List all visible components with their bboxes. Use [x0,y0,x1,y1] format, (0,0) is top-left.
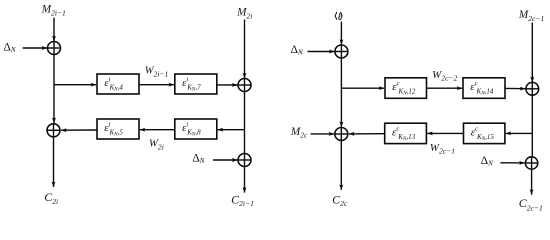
wire X8 to C_{2c-1} [531,169,533,195]
block E13 [385,123,427,143]
wire X6 to C_{2c} [340,141,342,191]
wire E4 to E7 [139,84,174,86]
svg-text:M2c: M2c [290,126,308,140]
block E5 [97,119,139,139]
wire E5 to xor X2 [61,129,97,131]
svg-text:C2i−1: C2i−1 [231,192,254,208]
svg-text:εcKN,15: εcKN,15 [471,125,495,142]
wire X4 to C_{2i-1} [244,167,246,193]
wire M_{2c-1} input [531,23,533,83]
svg-text:ΔN: ΔN [291,43,304,56]
block E4 [97,74,139,94]
svg-text:W2c−1: W2c−1 [430,142,455,156]
wire E8 to E5 [140,129,175,131]
wire branch to block E12 [341,87,384,89]
block E14 [463,78,505,99]
svg-text:εcKN,13: εcKN,13 [392,125,416,142]
wire branch to block E8 [218,129,245,131]
svg-text:W2i: W2i [149,138,164,152]
block E7 [175,74,217,94]
xor X8 [525,157,537,169]
xor X1 [48,42,61,55]
label rangle bracket right [340,12,342,20]
svg-text:M2c−1: M2c−1 [518,9,544,23]
wire M_{2i-1} input [53,18,55,42]
wire E15 to E13 [427,132,463,134]
svg-text:C2c: C2c [332,192,348,208]
svg-text:εcKN,14: εcKN,14 [470,80,494,97]
wire E14 to xor X7 [505,87,525,89]
svg-text:εiKN,7: εiKN,7 [182,76,201,93]
svg-text:εiKN,4: εiKN,4 [104,76,123,93]
wire Delta_N to xor X4 [213,159,237,161]
xor X6 [335,128,348,141]
svg-text:ΔN: ΔN [192,151,205,164]
wire M_{2c} to xor X6 [311,133,335,135]
label langle bracket left [335,12,337,20]
svg-text:ΔN: ΔN [481,154,494,167]
svg-text:ΔN: ΔN [3,41,16,54]
wire Delta_N to xor X5 [308,51,335,53]
block E15 [464,123,505,143]
wire X2 to C_{2i} [53,137,55,187]
svg-text:C2c−1: C2c−1 [519,196,543,212]
xor X4 [238,154,251,167]
wire X7 down to xor X8 [531,95,533,157]
xor X3 [238,79,251,92]
wire ell input [340,22,342,45]
block E8 [175,119,217,139]
svg-text:εcKN,12: εcKN,12 [392,80,416,97]
xor X7 [526,82,539,95]
svg-text:C2i: C2i [44,190,58,206]
svg-text:M2i: M2i [236,6,252,20]
wire X1 down to xor X2 [53,55,55,124]
xor X2 [47,124,60,137]
wire branch to block E15 [506,132,533,134]
svg-text:W2i−1: W2i−1 [145,66,169,79]
wire X3 down to xor X4 [244,92,246,154]
wire X5 down to xor X6 [340,58,342,127]
svg-text:εiKN,5: εiKN,5 [104,121,123,138]
xor X5 [335,45,348,58]
wire Delta_N to xor X1 [23,47,47,49]
svg-text:W2c−2: W2c−2 [432,69,457,83]
block E12 [385,78,427,99]
wire Delta_N to xor X8 [500,162,524,164]
svg-text:M2i−1: M2i−1 [41,3,66,17]
wire M_{2i} input [244,20,246,79]
wire E7 to xor X3 [217,84,238,86]
wire E12 to E14 [427,87,463,89]
svg-text:εiKN,8: εiKN,8 [182,121,201,138]
wire E13 to xor X6 [349,133,385,135]
wire branch to block E4 [54,84,96,86]
